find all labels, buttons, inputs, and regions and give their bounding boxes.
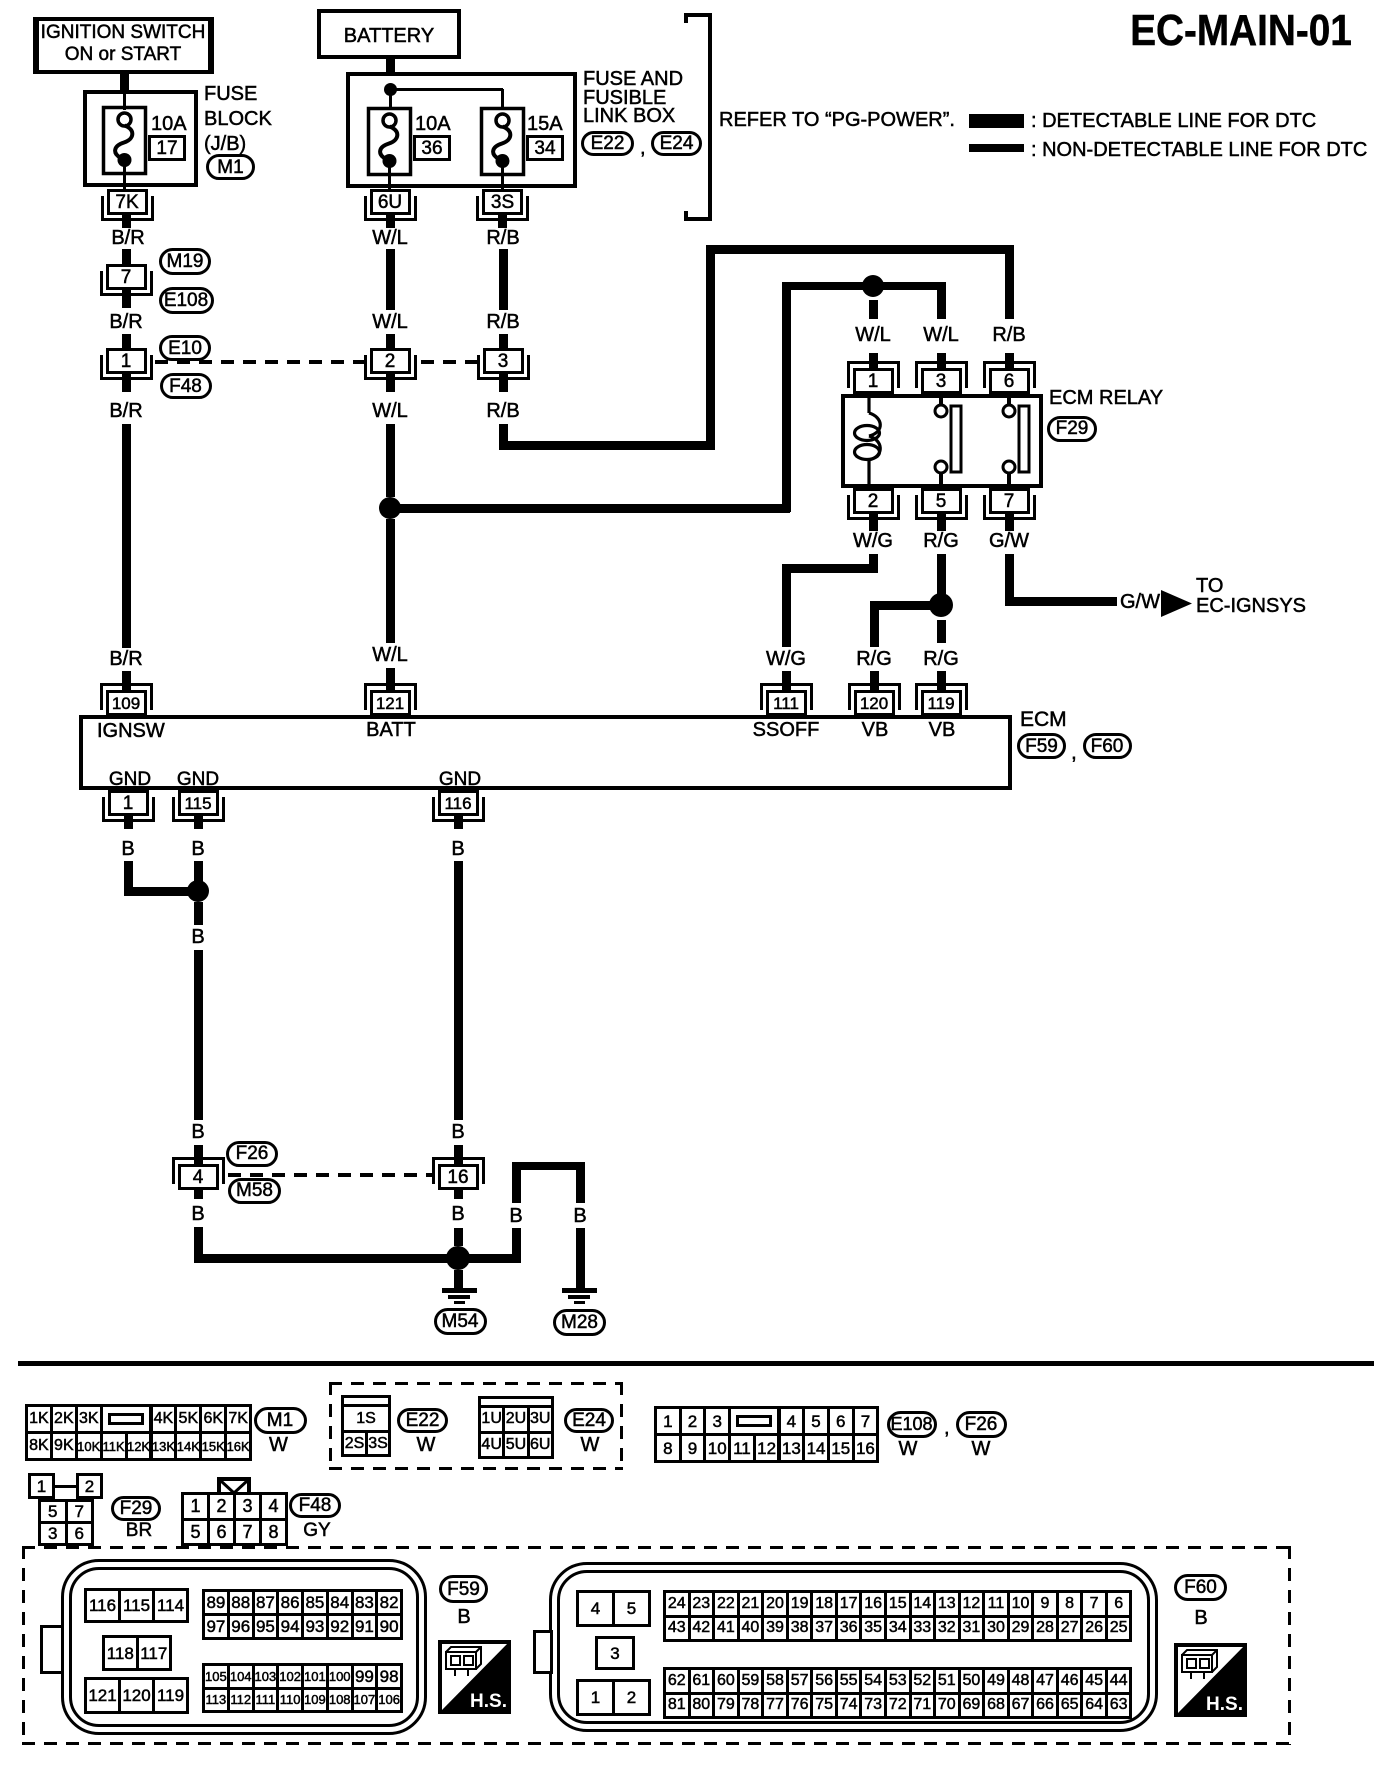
svg-text:H.S.: H.S. — [1206, 1694, 1243, 1715]
svg-text:H.S.: H.S. — [470, 1691, 507, 1712]
